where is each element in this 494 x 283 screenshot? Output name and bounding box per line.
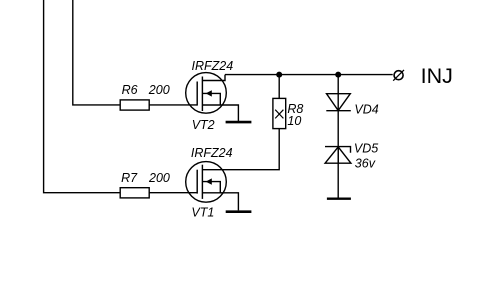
wire: R7 to VT1 gate — [149, 192, 197, 194]
wire: R6 to VT2 gate — [149, 104, 197, 106]
transistor VT2 body circle — [186, 73, 227, 114]
wire: second vertical bus to R6 — [73, 0, 120, 105]
svg-text:VT1: VT1 — [191, 206, 214, 220]
transistor VT2 channel bar — [201, 77, 203, 112]
svg-text:VT2: VT2 — [192, 118, 215, 132]
wire: VT2 drain tap to top rail — [202, 75, 225, 81]
wire: VD5 down to ground — [337, 147, 339, 198]
transistor VT1 body arrow — [206, 178, 212, 184]
svg-text:IRFZ24: IRFZ24 — [192, 59, 234, 73]
diode VD4 triangle — [327, 94, 351, 111]
node junction at R8 top — [276, 72, 282, 78]
wire: VT2 source tap down — [202, 105, 238, 121]
resistor R6 — [120, 100, 149, 110]
transistor VT1 gate bar — [196, 170, 198, 194]
ground bar for VT1 source — [226, 210, 252, 213]
svg-text:INJ: INJ — [421, 64, 453, 88]
wire: junction down to R8 — [278, 75, 280, 99]
svg-text:IRFZ24: IRFZ24 — [191, 146, 233, 160]
wire: R8 bottom to VT1 drain — [202, 129, 279, 170]
wire: VD4 to VD5 — [337, 111, 339, 164]
wire: VT1 body tap — [202, 182, 220, 193]
svg-text:200: 200 — [148, 171, 170, 185]
transistor VT1 channel bar — [201, 165, 203, 199]
zener VD5 triangle — [325, 147, 351, 163]
svg-text:200: 200 — [148, 83, 170, 97]
wire: top rail to INJ — [225, 74, 393, 76]
terminal slash — [393, 70, 404, 81]
wire: VT1 source tap down — [202, 193, 238, 211]
svg-text:VD4: VD4 — [354, 103, 378, 117]
svg-text:R6: R6 — [122, 83, 138, 97]
ground bar for VT2 source — [226, 121, 252, 124]
resistor R8 — [273, 98, 286, 128]
svg-text:36v: 36v — [355, 156, 376, 170]
wire: junction down to VD4 — [337, 75, 339, 111]
transistor VT2 body arrow — [206, 90, 212, 96]
zener VD5 cathode bar with tick — [325, 147, 351, 153]
wire: left vertical bus to R7 — [44, 0, 121, 193]
svg-text:10: 10 — [287, 114, 301, 128]
transistor VT2 gate bar — [196, 82, 198, 106]
transistor VT1 body circle — [186, 162, 227, 203]
resistor R7 — [120, 188, 149, 198]
terminal circle INJ — [394, 71, 403, 80]
wire: VT2 body tap — [202, 93, 220, 105]
svg-text:R7: R7 — [121, 171, 138, 185]
ground bar below VD5 — [327, 198, 351, 200]
svg-text:VD5: VD5 — [354, 142, 378, 156]
node junction at VD4 top — [335, 72, 341, 78]
resistor R8 X mark — [275, 110, 283, 119]
diode VD4 cathode bar — [326, 110, 351, 112]
